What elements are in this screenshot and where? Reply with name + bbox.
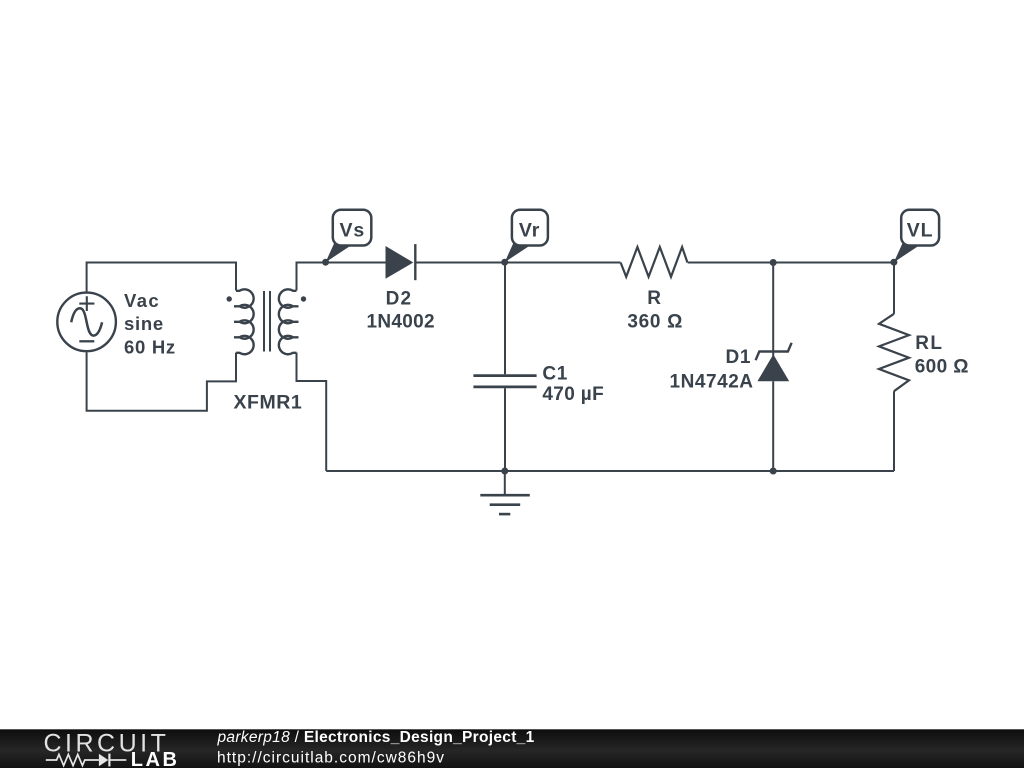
voltage source V1 (Vac sine 60 Hz)	[57, 293, 116, 352]
svg-text:XFMR1: XFMR1	[233, 392, 302, 414]
wire bottom rail	[326, 470, 894, 472]
wire primary bottom	[87, 352, 236, 411]
footer bar	[0, 729, 1024, 768]
svg-text:600 Ω: 600 Ω	[915, 357, 969, 378]
svg-text:D2: D2	[386, 289, 413, 310]
svg-text:1N4002: 1N4002	[367, 311, 435, 332]
svg-text:60 Hz: 60 Hz	[124, 336, 176, 357]
zener diode D1	[756, 263, 792, 472]
transformer XFMR1	[227, 289, 307, 354]
svg-text:LAB: LAB	[131, 749, 180, 768]
capacitor C1	[473, 263, 536, 472]
svg-text:parkerp18 / Electronics_Design: parkerp18 / Electronics_Design_Project_1	[217, 729, 535, 746]
svg-text:http://circuitlab.com/cw86h9v: http://circuitlab.com/cw86h9v	[217, 750, 445, 767]
node VL flag	[890, 210, 939, 266]
wire R to D1 junction	[688, 262, 774, 264]
wire D2 cathode to Vr node	[415, 262, 505, 264]
svg-text:VL: VL	[907, 220, 934, 242]
svg-text:470 µF: 470 µF	[542, 384, 604, 405]
svg-text:sine: sine	[124, 313, 164, 334]
svg-text:1N4742A: 1N4742A	[669, 371, 753, 392]
wire primary top	[87, 263, 236, 292]
ground	[480, 471, 530, 514]
svg-text:Vs: Vs	[339, 220, 365, 242]
svg-text:D1: D1	[725, 347, 751, 368]
node junction at ground	[501, 468, 508, 475]
diode D2	[386, 244, 416, 280]
svg-text:RL: RL	[915, 333, 943, 354]
svg-text:C1: C1	[542, 364, 568, 385]
svg-text:Vac: Vac	[124, 290, 160, 311]
resistor RL	[879, 263, 909, 472]
resistor R	[621, 247, 688, 277]
node Vs flag	[322, 210, 371, 266]
node junction at D1 top	[770, 259, 777, 266]
wire Vr node to resistor R	[505, 262, 621, 264]
wire secondary top	[297, 263, 386, 291]
wire junction to VL node	[773, 262, 894, 264]
footer logo resistor-diode glyph	[46, 754, 127, 767]
node junction at D1 bottom	[770, 468, 777, 475]
node Vr flag	[501, 210, 548, 266]
wire secondary bottom	[297, 353, 327, 471]
svg-text:Vr: Vr	[519, 220, 540, 242]
svg-text:360 Ω: 360 Ω	[627, 312, 683, 333]
svg-text:R: R	[647, 288, 661, 309]
